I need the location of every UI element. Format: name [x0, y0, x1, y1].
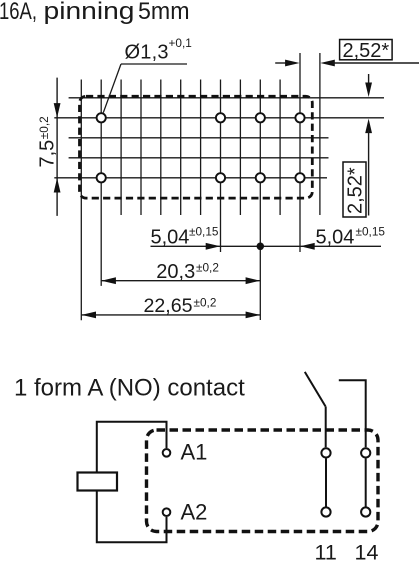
- fixed contact hook (pin 14): [339, 380, 366, 447]
- contact blade (pin 11): [305, 372, 326, 407]
- svg-text:7,5: 7,5: [37, 140, 59, 168]
- svg-text:14: 14: [355, 541, 379, 561]
- svg-text:A2: A2: [181, 500, 208, 525]
- grid raster rows: [54, 98, 384, 178]
- relay body outline (dashed) schematic: [147, 430, 379, 532]
- 5,04 shared point dot: [257, 243, 265, 251]
- coil K1: [78, 473, 118, 491]
- grid col 7: [200, 80, 202, 216]
- svg-text:5,04: 5,04: [316, 226, 355, 248]
- hole top row col 8: [216, 113, 225, 122]
- svg-text:11: 11: [315, 541, 337, 561]
- grid row 1 / top hole row: [54, 117, 384, 119]
- svg-text:16A,: 16A,: [0, 0, 37, 25]
- grid col 11: [279, 80, 281, 216]
- 2,52 horizontal dimension (top right): [275, 62, 287, 64]
- hole A1 (top row col 2): [97, 113, 106, 122]
- contact point 14 upper: [361, 448, 370, 457]
- 7,5 arrow down: [54, 103, 61, 118]
- hole bottom row col 10: [256, 173, 265, 182]
- hole diameter leader line: [103, 64, 187, 113]
- wire coil bottom to A2: [97, 491, 167, 543]
- grid col 9: [239, 80, 241, 216]
- grid row 4 / bottom hole row: [54, 177, 327, 179]
- relay body outline (dashed) top view: [80, 96, 313, 198]
- grid col 12 / hole col 14, extension up for 2,52: [299, 53, 301, 252]
- svg-text:22,65: 22,65: [144, 295, 193, 317]
- wire pin 14 inner: [365, 458, 367, 506]
- grid col 6: [180, 80, 182, 216]
- 5,04 dimension line (chained left+right): [151, 245, 382, 247]
- grid col 1 / extension for 22,65: [80, 80, 82, 321]
- svg-text:±0,15: ±0,15: [189, 225, 219, 239]
- svg-text:1 form A (NO) contact: 1 form A (NO) contact: [14, 375, 245, 402]
- hole top row col 10: [256, 113, 265, 122]
- svg-text:±0,2: ±0,2: [194, 295, 217, 309]
- grid row 2: [69, 137, 329, 139]
- grid raster columns (2.52mm): [81, 53, 320, 320]
- svg-text:±0,15: ±0,15: [356, 225, 386, 239]
- svg-text:A1: A1: [181, 440, 208, 465]
- wire coil top to A1: [97, 422, 167, 473]
- svg-text:5mm: 5mm: [138, 0, 190, 25]
- grid col 10 / hole col 12, extension for dims: [259, 80, 261, 321]
- grid col 3: [120, 80, 122, 216]
- 22,65 dimension line: [81, 314, 260, 316]
- svg-text:pinning: pinning: [44, 0, 135, 25]
- svg-text:+0,1: +0,1: [169, 36, 192, 50]
- hole bottom row col 12: [295, 173, 304, 182]
- contact point 11 upper: [321, 448, 330, 457]
- svg-text:2,52*: 2,52*: [345, 167, 367, 214]
- svg-text:±0,2: ±0,2: [196, 261, 219, 275]
- svg-text:20,3: 20,3: [156, 261, 195, 283]
- grid col 2 / hole col A1, extension for 20,3: [100, 80, 102, 286]
- terminal A2: [163, 508, 171, 516]
- grid col 5: [160, 80, 162, 216]
- 20,3 dimension line: [101, 280, 260, 282]
- grid row 3: [69, 157, 329, 159]
- svg-text:2,52*: 2,52*: [343, 40, 390, 62]
- 2,52 vertical dimension (right): [368, 74, 370, 85]
- 7,5 dimension line: [56, 78, 58, 216]
- 5,04 arrow right-pointing: [206, 243, 221, 250]
- grid row 0 (body top raster): [69, 97, 384, 99]
- 7,5 label (rotated): [37, 116, 59, 167]
- terminal A1: [163, 449, 171, 457]
- terminal 14: [361, 507, 370, 516]
- svg-text:Ø1,3: Ø1,3: [125, 42, 169, 64]
- 2,52 box label (rotated, right): [343, 162, 366, 217]
- 2,52 box label (top): [340, 40, 393, 60]
- hole A2 (bottom row col 2): [97, 173, 106, 182]
- svg-text:5,04: 5,04: [151, 226, 190, 248]
- hole top row col 12: [295, 113, 304, 122]
- 5,04 arrow left-pointing: [300, 243, 315, 250]
- hole bottom row col 8: [216, 173, 225, 182]
- 7,5 arrow up: [54, 178, 61, 193]
- grid col 13 / raster edge, extension up for 2,52: [319, 53, 321, 215]
- grid col 8 / hole col 11, extension for 5,04: [220, 80, 222, 253]
- wire pin 11: [325, 406, 327, 447]
- wire pin 11 inner: [325, 458, 327, 506]
- svg-text:±0,2: ±0,2: [37, 116, 51, 139]
- grid col 4: [140, 80, 142, 216]
- terminal 11: [321, 507, 330, 516]
